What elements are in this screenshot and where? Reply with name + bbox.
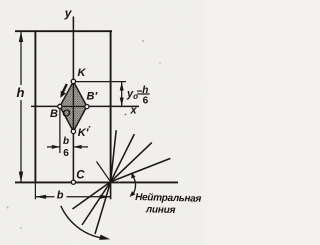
h dimension arrowheads [19, 31, 23, 42]
fan of neutral lines from corner [73, 130, 171, 234]
rectangle right edge [110, 30, 112, 183]
vertex circle K [71, 79, 75, 83]
neutral line 6 (down-left shallow) [73, 182, 111, 209]
svg-text:x: x [130, 105, 138, 117]
b dimension line [35, 196, 54, 198]
rotation arc with arrow [61, 206, 105, 239]
neutral line 3 [111, 143, 152, 182]
rectangle bottom edge with left tick and neutral-line extension [15, 181, 178, 183]
rectangle section: top edge with left tick [15, 30, 112, 32]
vertex circle B' [85, 105, 89, 109]
svg-text:С: С [76, 170, 85, 182]
h dimension line [20, 31, 22, 85]
point C circle [71, 180, 75, 184]
svg-text:b: b [57, 190, 64, 202]
svg-text:y: y [64, 6, 73, 20]
vertex circle K' [71, 129, 75, 133]
neutral line 2 [111, 134, 135, 182]
x axis [31, 105, 139, 107]
rhombus diagonals re-drawn [72, 81, 74, 131]
svg-text:6: 6 [143, 96, 149, 107]
rectangle left edge [34, 30, 36, 183]
y axis [72, 17, 74, 183]
scan specks [142, 40, 144, 42]
y0 dimension line [121, 82, 123, 106]
force arrow at K [63, 84, 67, 93]
svg-text:линия: линия [145, 204, 176, 216]
horizontal line through K [73, 81, 126, 83]
neutral line 1 (steep up-right) [111, 130, 117, 182]
neutral line 8 [95, 182, 111, 234]
svg-text:b: b [63, 136, 69, 147]
svg-text:О: О [62, 107, 70, 119]
paper background [0, 0, 202, 245]
svg-text:Нейтральная: Нейтральная [135, 192, 202, 205]
tick below bottom-right corner [110, 182, 112, 199]
neutral line 5 (up-left inside section) [97, 162, 111, 182]
b/6 tick from B [59, 109, 61, 153]
svg-text:K′: K′ [78, 127, 90, 139]
svg-text:В′: В′ [87, 91, 99, 103]
label Нейтральная линия [135, 192, 202, 217]
svg-text:6: 6 [63, 148, 69, 159]
core rhombus (hatched) [60, 81, 87, 131]
svg-text:В: В [50, 108, 58, 120]
vertex circle B [58, 104, 62, 108]
neutral line 4 [111, 158, 171, 181]
neutral line 7 [82, 182, 111, 225]
tick below bottom-left corner [34, 182, 36, 199]
svg-text:h: h [17, 85, 25, 100]
small curved double arrow near corner [133, 176, 136, 195]
svg-text:K: K [78, 67, 87, 79]
b/6 dimension line [47, 146, 60, 148]
